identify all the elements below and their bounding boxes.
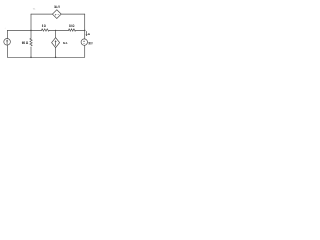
svg-text:3iΔ V: 3iΔ V: [54, 5, 60, 9]
voltage source circle: [81, 39, 87, 45]
resistor 60 ohm vertical zigzag: [30, 38, 32, 46]
dependent current source diamond: [52, 38, 60, 48]
svg-text:5iΔ A: 5iΔ A: [63, 41, 68, 45]
svg-text:60 Ω: 60 Ω: [22, 41, 28, 45]
svg-text:−: −: [83, 42, 85, 45]
junction node at 84.7,30.4: [84, 30, 86, 32]
dep current source arrow: [55, 41, 57, 46]
wire bottom rail: [7, 56, 84, 58]
svg-text:iΔ: iΔ: [88, 32, 91, 36]
svg-text:vΔ: vΔ: [33, 7, 36, 10]
current arrow i-delta: [86, 31, 88, 35]
resistor 10 ohm zigzag: [69, 29, 76, 32]
wire mid rail segment 2: [49, 29, 68, 31]
resistor 5 ohm zigzag: [42, 29, 50, 32]
junction node at 55.6,30.4: [55, 30, 56, 31]
wire left branch lower: [6, 45, 8, 57]
svg-text:5 Ω: 5 Ω: [42, 24, 46, 28]
current source arrow: [6, 40, 8, 44]
svg-text:+: +: [5, 27, 7, 29]
wire dep source branch lower: [55, 48, 57, 58]
junction node at 31,57.3: [30, 57, 32, 59]
wire right branch upper: [84, 14, 86, 39]
svg-text:10 Ω: 10 Ω: [69, 24, 75, 28]
svg-text:+: +: [55, 13, 57, 16]
dependent voltage source diamond: [52, 10, 61, 19]
wire right branch lower: [84, 45, 86, 57]
wire top rail left: [31, 13, 52, 15]
wire dep source branch upper: [55, 30, 57, 37]
svg-text:50 V: 50 V: [89, 41, 93, 45]
wire top-left vertical: [30, 14, 32, 30]
wire mid rail segment 1: [7, 29, 41, 31]
wire resistor branch upper: [30, 30, 32, 38]
wire top rail right: [61, 13, 84, 15]
wire mid rail segment 3: [76, 29, 85, 31]
wire left branch upper: [6, 30, 8, 38]
junction node at 31,30.4: [30, 30, 32, 32]
junction node at 55.6,57.3: [55, 57, 57, 59]
current source circle: [4, 39, 11, 46]
wire resistor branch lower: [30, 47, 32, 57]
